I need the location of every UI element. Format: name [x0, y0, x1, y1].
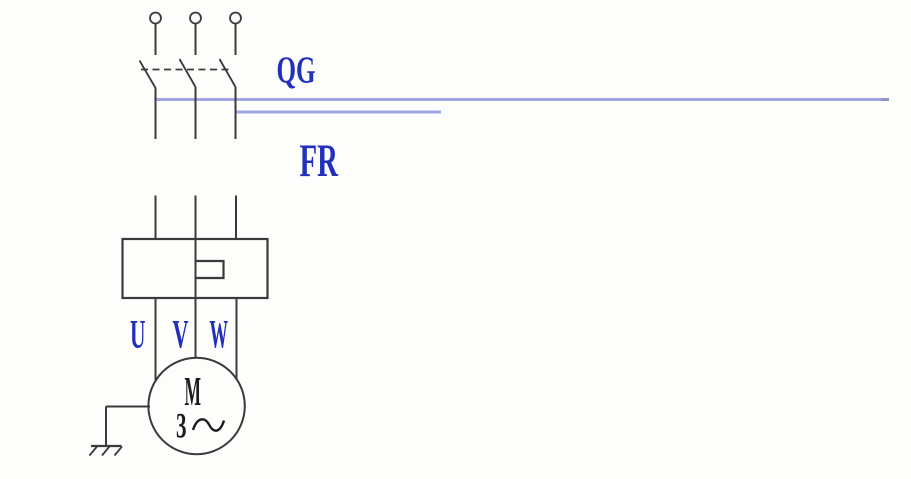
svg-text:QG: QG — [277, 50, 316, 92]
wire: terminal 1 to switch pole 1 — [155, 24, 157, 56]
wire: phase 3 above FR box — [235, 196, 237, 240]
wire: terminal 2 to switch pole 2 — [195, 24, 197, 56]
ground hatch 3 — [115, 447, 123, 456]
wire: phase 1 below FR box — [155, 298, 157, 382]
svg-text:V: V — [173, 312, 189, 357]
ground hatch 2 — [102, 447, 110, 456]
wire: pole 3 below switch — [235, 87, 237, 139]
ground bar — [91, 445, 122, 447]
blue bus wire lower — [236, 111, 441, 114]
wire: terminal 3 to switch pole 3 — [235, 24, 237, 56]
wire: phase 1 above FR box — [155, 196, 157, 240]
svg-text:W: W — [210, 312, 229, 357]
wire: phase 2 through FR box — [195, 239, 197, 359]
motor tilde (AC sine) — [193, 419, 224, 430]
motor M circle — [148, 358, 244, 454]
switch QG mechanical coupling dashed line — [141, 69, 230, 71]
wire: motor frame to ground horizontal — [106, 406, 150, 408]
ground hatch 1 — [90, 447, 98, 456]
svg-text:M: M — [185, 368, 202, 414]
terminal circle 3 — [230, 13, 241, 24]
switch QG blade pole 2 — [180, 59, 196, 87]
wire: pole 2 below switch — [195, 87, 197, 139]
wire: phase 3 below FR box — [236, 298, 238, 382]
terminal circle 2 — [190, 13, 201, 24]
wire: ground drop vertical — [105, 407, 107, 447]
FR heater element notch — [196, 261, 224, 278]
thermal relay FR box — [123, 239, 268, 298]
svg-text:U: U — [130, 312, 146, 357]
blue bus wire upper — [155, 98, 889, 101]
blue bus wire upper end cap — [881, 98, 889, 101]
switch QG blade pole 1 — [140, 61, 156, 89]
svg-text:FR: FR — [300, 135, 339, 187]
svg-text:3: 3 — [176, 406, 187, 446]
wire: pole 1 below switch — [155, 88, 157, 140]
terminal circle 1 — [150, 13, 161, 24]
switch QG blade pole 3 — [220, 59, 236, 87]
wire: phase 2 above FR box — [195, 196, 197, 240]
